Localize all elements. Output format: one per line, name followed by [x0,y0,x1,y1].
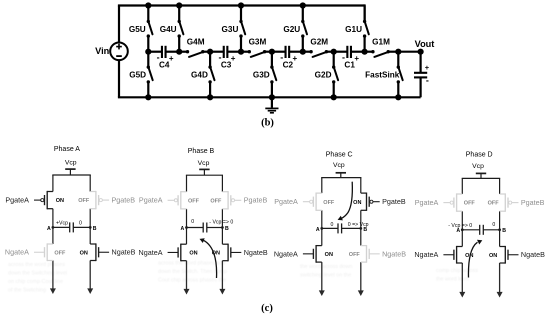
transistor PMOS left D [443,193,462,211]
wire middle rail segments [148,51,162,53]
voltage source Vin [118,6,120,43]
svg-text:G3U: G3U [222,25,239,34]
svg-text:PgateA: PgateA [274,197,298,206]
capacitor C2 [284,46,286,58]
wire left branch [52,175,54,192]
capacitor flying B [187,227,204,229]
svg-text:Vcp: Vcp [65,159,77,166]
svg-text:Phase A: Phase A [54,146,80,153]
node A B [185,226,188,229]
svg-text:down the Switching level: down the Switching level [8,271,67,277]
transistor PMOS right D [500,193,519,211]
ground arrow left B [184,289,190,295]
svg-text:Vout: Vout [415,39,435,49]
capacitor flying D [462,229,479,231]
switch FastSink [397,52,399,66]
svg-text:NgateA: NgateA [5,248,29,257]
ground [271,97,273,107]
wire right branch [360,178,362,194]
svg-text:the word level: the word level [436,277,469,283]
transistor PMOS right C [361,193,380,211]
wire right branch [499,178,501,194]
ground arrow left A [50,288,56,294]
ground arrow right C [358,290,364,296]
svg-text:G3M: G3M [249,37,267,46]
svg-text:ON: ON [353,200,361,206]
transistor NMOS right C [361,245,380,263]
svg-text:0: 0 [330,222,333,228]
svg-text:(b): (b) [261,117,274,128]
wire right branch [89,175,91,192]
wire top rail [186,174,223,176]
node A C [320,227,323,230]
svg-text:NgateA: NgateA [139,248,163,257]
svg-text:OFF: OFF [210,198,222,204]
capacitor C3 [223,46,225,58]
svg-text:- Vcp => 0: - Vcp => 0 [209,219,233,225]
svg-text:Phase B: Phase B [188,148,215,155]
svg-text:PgateB: PgateB [244,196,268,205]
transistor NMOS left B [168,244,187,262]
svg-text:comp chip across: comp chip across [436,268,478,274]
transistor NMOS right A [90,243,109,261]
svg-text:(c): (c) [261,303,273,314]
junction dots middle rail [145,49,151,55]
switch G4M [179,51,187,53]
svg-text:NgateB: NgateB [521,250,545,259]
ground arrow right B [219,289,225,295]
ground arrow left C [319,290,325,296]
svg-text:PgateB: PgateB [382,197,406,206]
switch G5D [147,52,149,66]
transistor PMOS right B [222,191,241,209]
svg-text:Phase D: Phase D [466,152,493,159]
junction dots bottom rail [145,94,151,100]
svg-text:Phase C: Phase C [326,152,353,159]
svg-text:NgateA: NgateA [414,250,438,259]
transistor NMOS right B [222,244,241,262]
svg-text:B: B [93,226,97,232]
switch G4D [209,52,211,66]
svg-text:ON: ON [189,251,197,257]
wire left branch [186,175,188,192]
svg-text:PgateA: PgateA [5,196,29,205]
node B D [498,228,501,231]
svg-text:OFF: OFF [54,250,66,256]
switch G3M [241,51,249,53]
svg-text:G2D: G2D [315,71,332,80]
ground arrow right A [87,288,93,294]
svg-text:+Vcp: +Vcp [56,221,68,227]
svg-text:G2M: G2M [310,37,328,46]
switch G3D [271,52,273,66]
svg-text:G4U: G4U [160,25,177,34]
svg-text:+: + [354,54,359,63]
current arrow B [204,240,217,278]
svg-text:0: 0 [492,222,495,228]
svg-text:PgateB: PgateB [521,198,545,207]
wire top rail [118,4,365,6]
svg-text:ON: ON [489,253,497,259]
svg-text:C2: C2 [283,60,294,69]
ground arrow right D [497,292,503,298]
svg-text:B: B [225,226,229,232]
svg-text:C4: C4 [159,60,170,69]
svg-text:0 => Vcp: 0 => Vcp [348,222,369,228]
svg-text:ON: ON [56,198,64,204]
svg-text:Cout chip across phases the: Cout chip across phases the [158,278,226,284]
svg-text:of the Switching: of the Switching [8,288,46,294]
node A D [461,228,464,231]
svg-text:NgateB: NgateB [244,248,268,257]
wire right branch [221,175,223,192]
svg-text:Vcp: Vcp [198,160,210,167]
svg-text:OFF: OFF [188,198,200,204]
node A A [52,226,55,229]
svg-text:OFF: OFF [78,198,90,204]
junction dots top rail [145,2,151,8]
transistor NMOS right D [500,246,519,264]
current arrow D [468,242,477,277]
svg-text:OFF: OFF [488,201,500,207]
switch G3U [240,6,242,21]
svg-text:G2U: G2U [283,25,300,34]
wire top rail [321,177,361,179]
svg-text:-: - [426,75,429,85]
transistor NMOS left A [34,243,53,261]
capacitor flying A [53,226,70,228]
svg-text:ON: ON [325,252,333,258]
svg-text:B: B [502,228,506,234]
svg-text:A: A [47,226,51,232]
svg-text:Vin: Vin [95,46,110,56]
svg-text:G1U: G1U [345,25,362,34]
wire top rail [52,174,91,176]
svg-text:FastSink: FastSink [365,71,400,80]
svg-text:C3: C3 [221,60,232,69]
ground arrow left D [459,292,465,298]
transistor NMOS left D [443,246,462,264]
transistor PMOS left B [168,191,187,209]
svg-text:across the word phases: across the word phases [8,262,65,268]
svg-text:- Vcp => 0: - Vcp => 0 [448,223,472,229]
switch G1U [364,6,366,21]
transistor PMOS left C [303,193,322,211]
capacitor output [420,52,422,73]
svg-text:A: A [181,226,185,232]
svg-text:OFF: OFF [323,200,335,206]
current arrow C [341,182,352,219]
svg-text:0: 0 [79,221,82,227]
svg-text:Vcp: Vcp [472,163,484,170]
wire top rail [462,177,501,179]
switch G2M [303,51,311,53]
transistor PMOS left A [34,191,53,209]
switch G5U [147,6,149,21]
node B A [89,226,92,229]
svg-text:PgateA: PgateA [415,198,439,207]
svg-text:G5D: G5D [129,71,146,80]
svg-text:Vcp: Vcp [333,162,345,169]
svg-text:+: + [169,54,174,63]
node B C [359,227,362,230]
svg-text:0: 0 [191,219,194,225]
svg-text:+: + [293,54,298,63]
switch G1M [365,51,373,53]
svg-text:ON: ON [80,250,88,256]
svg-text:OFF: OFF [349,252,361,258]
svg-text:NgateB: NgateB [382,249,406,258]
node B B [221,226,224,229]
svg-text:C1: C1 [344,60,355,69]
svg-text:NgateB: NgateB [112,248,136,257]
transistor NMOS left C [303,245,322,263]
svg-text:G3D: G3D [253,71,270,80]
svg-text:switching level on the: switching level on the [300,273,351,279]
svg-text:NgateA: NgateA [274,249,298,258]
svg-text:OFF: OFF [464,201,476,207]
svg-text:the word across down: the word across down [300,264,352,270]
svg-text:+: + [231,54,236,63]
svg-text:G4D: G4D [191,71,208,80]
svg-text:A: A [316,227,320,233]
switch G2D [333,52,335,66]
wire left branch [321,178,323,194]
svg-text:G5U: G5U [129,25,146,34]
wire bottom rail [118,96,421,98]
svg-text:on chip comp Cout line: on chip comp Cout line [8,279,63,285]
svg-text:G1M: G1M [372,37,390,46]
switch G4U [178,6,180,21]
capacitor C4 [161,46,163,58]
capacitor flying C [322,227,338,229]
svg-text:G4M: G4M [187,37,205,46]
svg-text:PgateB: PgateB [112,196,136,205]
switch G2U [302,6,304,21]
wire [398,51,420,53]
wire [364,4,366,20]
svg-text:PgateA: PgateA [139,196,163,205]
capacitor C1 [346,46,348,58]
wire left branch [461,178,463,194]
svg-text:+: + [425,63,430,72]
transistor PMOS right A [90,191,109,209]
